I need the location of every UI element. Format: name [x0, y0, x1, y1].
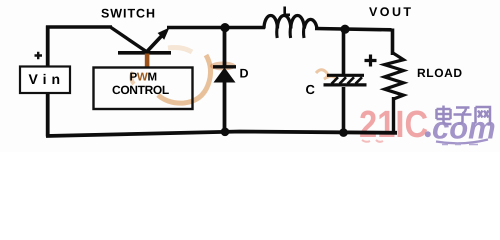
- svg-text:VOUT: VOUT: [369, 5, 414, 19]
- inductor L: [264, 15, 317, 38]
- wire: top rail inductor to VOUT corner: [315, 29, 392, 30]
- wire: capacitor bottom lead: [342, 87, 346, 134]
- wire: capacitor top lead: [342, 27, 346, 74]
- svg-text:SWITCH: SWITCH: [101, 7, 156, 21]
- node: capacitor-bottom junction: [339, 128, 348, 137]
- node: inductor-capacitor junction (top): [340, 25, 349, 34]
- wire: top rail from Vin to switch: [46, 25, 112, 29]
- wire: diode bottom lead: [223, 81, 227, 133]
- wire: transistor base stub (orange tinted): [145, 54, 150, 68]
- label L: [284, 7, 290, 15]
- svg-text:RLOAD: RLOAD: [417, 66, 463, 80]
- wire: top rail switch to inductor: [167, 26, 265, 30]
- wire: bottom rail: [46, 132, 397, 137]
- node: switch-diode junction (top): [220, 23, 229, 32]
- capacitor C (polarized, hatched plate): [324, 75, 367, 85]
- 电子网 simplified glyphs: [437, 106, 491, 125]
- svg-text:CONTROL: CONTROL: [112, 83, 169, 97]
- wire: Vin bottom vertical: [46, 92, 50, 137]
- transistor Q1 (switch): [111, 28, 171, 53]
- watermark 21IC.com 电子网 (bottom right, pink/purple): [359, 104, 496, 146]
- svg-text:C: C: [306, 82, 316, 97]
- resistor RLOAD: [385, 53, 404, 99]
- wire: VOUT corner down to RLOAD: [391, 29, 395, 56]
- node: diode-bottom junction: [221, 128, 230, 137]
- PWM CONTROL box: [94, 68, 193, 110]
- label + (output polarity): [365, 55, 377, 67]
- faint orange site-logo watermark (center): [131, 48, 336, 104]
- source Vin box: [20, 67, 70, 94]
- diode D: [213, 67, 236, 83]
- wire: Vin top vertical: [46, 26, 50, 68]
- svg-text:Vin: Vin: [29, 71, 66, 87]
- wire: RLOAD bottom lead: [392, 97, 395, 133]
- svg-text:PWM: PWM: [130, 72, 157, 84]
- label + (Vin polarity): [35, 52, 43, 60]
- wire: diode top lead: [223, 27, 227, 66]
- svg-text:D: D: [240, 67, 249, 81]
